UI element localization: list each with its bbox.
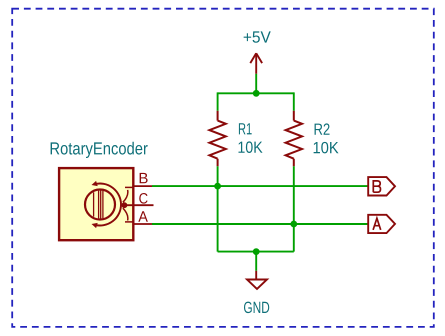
- resistor R2: [286, 111, 302, 167]
- encoder knob circle: [85, 190, 115, 220]
- hierarchical label flag B: [368, 177, 395, 195]
- power symbol +5V: [250, 53, 262, 74]
- encoder rotation arc: [95, 184, 121, 226]
- pin name B: [140, 173, 148, 183]
- junction at R1 / B wire: [214, 183, 221, 190]
- label 10K (R1): [238, 141, 262, 153]
- junction at R2 / A wire: [290, 221, 297, 228]
- encoder knob hatch lines: [94, 190, 103, 218]
- wire signal B: [152, 185, 368, 187]
- junction at +5V rail: [253, 90, 260, 97]
- pin name A: [138, 211, 148, 221]
- label 10K (R2): [314, 142, 339, 154]
- pin name C: [139, 193, 147, 204]
- label GND: [244, 302, 269, 314]
- wire R1 bottom to B wire: [217, 166, 219, 186]
- ground: [247, 271, 267, 289]
- wire signal A: [152, 223, 368, 225]
- label RotaryEncoder: [51, 142, 148, 158]
- wire R2 top: [293, 92, 295, 110]
- rotation arrowhead bottom: [92, 223, 98, 228]
- flag letter B: [373, 181, 380, 192]
- pin C: [124, 204, 153, 206]
- wire R2 column below A to bottom rail: [293, 224, 295, 252]
- wire R2 bottom to A wire: [293, 166, 295, 224]
- rotary encoder SW1 body: [59, 168, 133, 240]
- pin A: [135, 223, 153, 225]
- wire bottom rail: [218, 251, 294, 253]
- flag letter A: [373, 218, 381, 230]
- label R1: [239, 123, 252, 134]
- encoder wiper dot: [122, 202, 128, 208]
- encoder contact arcs: [123, 190, 128, 221]
- net label +5V: [244, 31, 271, 42]
- resistor R1: [209, 111, 225, 167]
- pin B: [135, 185, 153, 187]
- junction at GND rail: [253, 248, 260, 255]
- wire top rail: [218, 92, 294, 94]
- label R2: [315, 123, 330, 134]
- wire from +5V to top rail: [255, 74, 257, 94]
- wire R1 top: [217, 92, 219, 110]
- rotation arrowhead top: [92, 181, 98, 186]
- hierarchical label flag A: [368, 215, 395, 233]
- encoder contact stubs: [125, 187, 135, 222]
- wire R1 column below B to bottom rail: [217, 186, 219, 252]
- wire to GND: [255, 252, 257, 271]
